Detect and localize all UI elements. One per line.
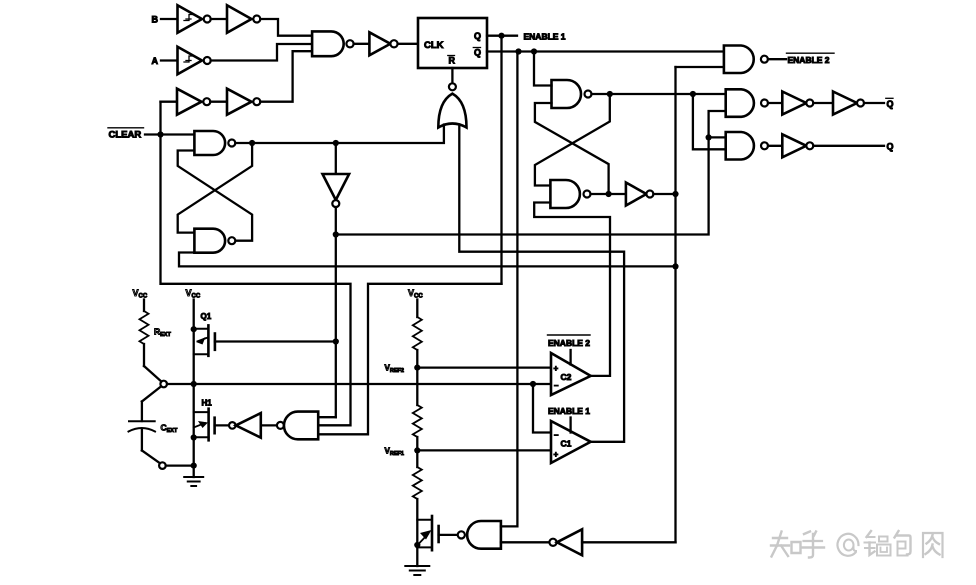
svg-text:VCC: VCC	[186, 288, 201, 300]
svg-text:ENABLE 1: ENABLE 1	[524, 31, 566, 41]
svg-text:VCC: VCC	[408, 288, 423, 300]
svg-text:A: A	[152, 56, 159, 66]
svg-text:H1: H1	[202, 399, 213, 408]
svg-text:VREF1: VREF1	[385, 447, 404, 458]
svg-text:Q1: Q1	[201, 312, 212, 321]
svg-text:VCC: VCC	[133, 288, 148, 300]
svg-text:Q: Q	[887, 142, 894, 152]
svg-text:VREF2: VREF2	[385, 364, 404, 375]
svg-text:R: R	[449, 56, 456, 66]
svg-text:C2: C2	[561, 372, 572, 382]
svg-text:B: B	[152, 15, 159, 25]
svg-text:Q: Q	[474, 48, 481, 58]
svg-text:–: –	[554, 431, 559, 440]
svg-text:CLK: CLK	[424, 40, 444, 51]
svg-text:Q: Q	[887, 99, 894, 109]
svg-text:C1: C1	[561, 439, 572, 449]
svg-text:REXT: REXT	[154, 327, 171, 339]
svg-text:ENABLE 2: ENABLE 2	[788, 55, 830, 65]
svg-text:+: +	[554, 364, 559, 373]
svg-text:+: +	[554, 450, 559, 459]
svg-text:CLEAR: CLEAR	[109, 130, 142, 141]
svg-text:–: –	[554, 381, 559, 390]
svg-text:ENABLE 1: ENABLE 1	[548, 406, 590, 416]
svg-text:Q: Q	[474, 31, 481, 41]
svg-text:CEXT: CEXT	[161, 423, 178, 435]
svg-text:ENABLE 2: ENABLE 2	[548, 338, 590, 348]
